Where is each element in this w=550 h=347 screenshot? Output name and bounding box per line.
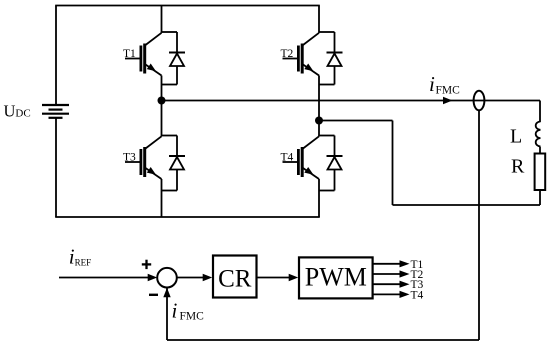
wire: T2 emitter bracket from diode branch [319,84,335,86]
svg-text:CR: CR [218,266,252,293]
wire: feedback up to summing junction [166,288,168,340]
label plus sign [142,260,151,269]
svg-text:T4: T4 [411,289,424,301]
wire: diode branch lower segment (T1) [176,66,178,85]
transistor T3 (IGBT) [125,136,162,179]
wire: left leg from midpoint to T3 [161,101,163,137]
wire: T4 emitter down [318,179,320,217]
wire: T2 collector bracket to diode branch [319,31,335,33]
arrow: feedback into summing junction [163,288,170,298]
summing junction [157,268,177,288]
diode D4 (antiparallel with T4) [327,156,343,170]
wire: T3 collector bracket to diode branch [162,135,178,137]
wire: feedback bottom line [167,339,479,341]
wire: between inductor and resistor [539,147,541,154]
current sensor (ellipse) [474,91,485,111]
wire: T1 collector bracket to diode branch [162,31,178,33]
wire: diode branch upper segment (T4) [334,136,336,157]
wire: left leg from top rail to T1 [161,6,163,33]
wire: right rail down to inductor [539,101,541,123]
svg-text:R: R [511,156,525,178]
battery UDC [42,105,69,118]
arrow: gate signal T2 [400,270,410,277]
svg-text:T1: T1 [123,48,136,60]
wire: PWM gate output 3 [373,283,401,285]
arrow: into CR block [203,274,213,281]
wire: PWM gate output 4 [373,293,401,295]
wire: diode branch upper segment (T3) [176,136,178,157]
diode D2 (antiparallel with T2) [327,53,343,67]
wire: right leg from midpoint to T4 [318,121,320,137]
arrow: into PWM block [289,274,299,281]
arrow: iREF into summing junction [148,274,158,281]
node: right leg midpoint junction [315,117,323,125]
svg-text:FMC: FMC [436,85,461,97]
arrow: gate signal T4 [400,291,410,298]
wire: T4 emitter bracket from diode branch [319,190,335,192]
wire: phase B output line (right midpoint) [319,120,393,122]
wire: diode branch upper segment (T1) [176,32,178,53]
label minus sign [149,294,158,296]
block CR (current regulator) [213,256,257,298]
transistor T1 (IGBT) [125,33,162,76]
wire: T2 emitter down [318,76,320,121]
wire: T3 emitter down [161,179,163,217]
transistor T2 (IGBT) [283,33,320,76]
arrow: gate signal T1 [400,260,410,267]
svg-text:PWM: PWM [305,263,367,292]
wire: CR to PWM [257,277,292,279]
wire: T1 emitter bracket from diode branch [162,84,178,86]
wire: top DC rail [55,5,320,7]
wire: diode branch lower segment (T2) [334,66,336,85]
svg-text:T4: T4 [281,152,294,164]
wire: bottom DC rail [55,216,320,218]
wire: diode branch lower segment (T3) [176,170,178,191]
svg-text:T3: T3 [123,152,136,164]
wire: right leg from top rail to T2 [318,6,320,33]
wire: return line up to phase B [392,121,394,206]
node: left leg midpoint junction [158,97,166,105]
block PWM [299,257,373,298]
wire: resistor to bottom corner [539,190,541,205]
wire: sensor output down (crosses return line) [478,110,480,340]
diode D1 (antiparallel with T1) [169,53,185,67]
svg-text:REF: REF [75,257,92,267]
wire: T4 collector bracket to diode branch [319,135,335,137]
wire: PWM gate output 2 [373,273,401,275]
svg-text:L: L [510,126,522,148]
wire: T1 emitter down [161,76,163,101]
wire: diode branch upper segment (T2) [334,32,336,53]
wire: T3 emitter bracket from diode branch [162,190,178,192]
arrow: iFMC current direction [443,97,453,104]
wire: iREF input line [59,277,150,279]
diode D3 (antiparallel with T3) [169,156,185,170]
wire: diode branch lower segment (T4) [334,170,336,191]
wire: battery top lead [55,6,57,105]
wire: load bottom return line [393,204,541,206]
svg-text:T2: T2 [281,48,294,60]
wire: PWM gate output 1 [373,263,401,265]
svg-text:i: i [429,72,435,96]
svg-text:i: i [172,299,178,323]
arrow: gate signal T3 [400,281,410,288]
wire: summing junction to CR [177,277,205,279]
svg-text:FMC: FMC [180,311,205,323]
resistor R [535,154,546,191]
wire: phase A output line (left midpoint to load, crosses right leg) [162,100,541,102]
wire: battery bottom lead [55,118,57,217]
inductor L [536,122,541,147]
transistor T4 (IGBT) [283,136,320,179]
